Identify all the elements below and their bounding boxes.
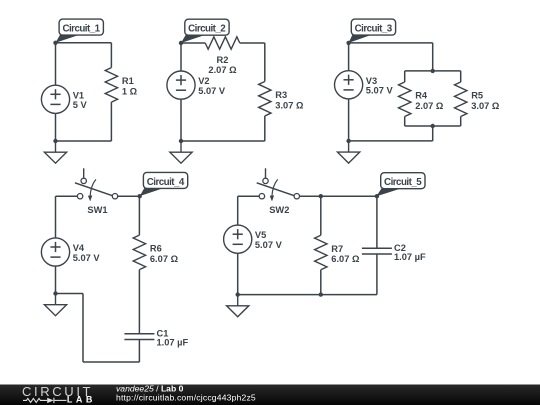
wire R4 branch upper [404, 71, 406, 82]
wire circuit2 top left [181, 42, 205, 44]
wire circuit2 right upper [264, 43, 266, 81]
svg-text:R6: R6 [150, 244, 162, 254]
voltage source V1 5 V [41, 85, 87, 113]
svg-text:6.07 Ω: 6.07 Ω [150, 254, 179, 264]
net flag Circuit_1 [56, 19, 104, 43]
switch SW2 [257, 168, 300, 215]
ground circuit5 [227, 295, 249, 317]
ground circuit1 [44, 141, 66, 163]
wire circuit1 right upper [110, 43, 112, 68]
wire R5 branch upper [460, 71, 462, 82]
wire circuit4 jog horizontal [56, 293, 84, 295]
ground circuit4 [44, 294, 66, 316]
footer bar [0, 385, 540, 405]
wire circuit5 bottom [238, 294, 377, 296]
wire circuit3 top [349, 42, 433, 44]
wire circuit3 left lower [348, 99, 350, 141]
svg-text:R2: R2 [217, 55, 229, 65]
node circuit2 top-left [179, 41, 183, 45]
svg-text:Circuit_2: Circuit_2 [188, 24, 226, 35]
svg-text:V3: V3 [366, 76, 377, 86]
svg-text:Circuit_4: Circuit_4 [147, 177, 185, 188]
ground circuit3 [338, 141, 360, 163]
svg-text:Circuit_3: Circuit_3 [355, 24, 393, 35]
svg-text:V2: V2 [198, 76, 209, 86]
wire circuit1 left lower [55, 113, 57, 141]
wire circuit3 bottom [349, 140, 433, 142]
net flag Circuit_3 [349, 19, 396, 43]
voltage source V2 5.07 V [167, 71, 226, 99]
wire circuit5 R7 lower [320, 270, 322, 295]
voltage source V5 5.07 V [224, 225, 283, 253]
node circuit3 parallel bottom [431, 124, 435, 128]
svg-text:1.07 µF: 1.07 µF [157, 338, 189, 348]
svg-text:V5: V5 [255, 230, 266, 240]
node circuit3 ground junction [346, 139, 350, 143]
wire circuit1 bottom [56, 140, 112, 142]
wire circuit3 parallel top bar [405, 70, 461, 72]
svg-text:Circuit_1: Circuit_1 [62, 24, 100, 35]
node circuit3 parallel top [431, 69, 435, 73]
wire circuit4 left upper [55, 196, 57, 238]
svg-text:5.07 V: 5.07 V [366, 86, 394, 96]
wire circuit5 left upper [237, 196, 239, 225]
svg-text:3.07 Ω: 3.07 Ω [275, 100, 304, 110]
wire R4 branch lower [404, 117, 406, 127]
resistor R4 2.07 ohm [399, 82, 411, 117]
net flag Circuit_2 [181, 19, 229, 43]
svg-text:R7: R7 [331, 244, 343, 254]
wire circuit3 feed down [432, 43, 434, 71]
svg-text:R5: R5 [471, 91, 483, 101]
svg-text:R3: R3 [275, 90, 287, 100]
wire circuit4 top left [56, 195, 78, 197]
wire circuit1 top [56, 42, 112, 44]
node circuit2 ground junction [179, 139, 183, 143]
wire R5 branch lower [460, 117, 462, 127]
wire circuit2 right lower [264, 116, 266, 141]
node circuit4 ground junction [53, 291, 57, 295]
node circuit3 top-left [346, 41, 350, 45]
svg-text:3.07 Ω: 3.07 Ω [471, 101, 500, 111]
wire circuit4 jog vertical [82, 294, 84, 363]
wire circuit5 top left [238, 195, 260, 197]
wire circuit3 parallel bottom bar [405, 125, 461, 127]
node circuit5 top-right [375, 194, 379, 198]
wire circuit4 R6 to C1 [138, 270, 140, 334]
wire circuit2 left lower [180, 99, 182, 141]
svg-text:5.07 V: 5.07 V [73, 253, 101, 263]
svg-text:1.07 µF: 1.07 µF [394, 252, 426, 262]
wire circuit3 return down [432, 126, 434, 141]
wire circuit4 bottom [83, 361, 139, 363]
node circuit1 ground junction [53, 139, 57, 143]
wire circuit4 left lower [55, 266, 57, 293]
capacitor C1 1.07 uF [124, 329, 188, 348]
svg-text:6.07 Ω: 6.07 Ω [331, 254, 360, 264]
node circuit1 top-left [53, 41, 57, 45]
svg-text:LAB: LAB [67, 395, 96, 405]
resistor R2 2.07 ohm [205, 37, 240, 49]
resistor R3 3.07 ohm [259, 81, 271, 116]
wire circuit2 left upper [180, 43, 182, 71]
wire circuit5 C2 upper [376, 196, 378, 248]
net flag Circuit_4 [140, 172, 188, 196]
wire circuit5 R7 upper [320, 196, 322, 235]
wire circuit4 switch to node [118, 195, 140, 197]
svg-text:V1: V1 [73, 90, 84, 100]
wire circuit4 node to R6 [138, 196, 140, 235]
svg-text:Circuit_5: Circuit_5 [384, 177, 422, 188]
resistor R7 6.07 ohm [315, 235, 327, 270]
svg-text:R4: R4 [415, 91, 428, 101]
svg-text:2.07 Ω: 2.07 Ω [415, 101, 444, 111]
wire circuit5 left lower [237, 253, 239, 294]
svg-text:SW1: SW1 [87, 205, 107, 215]
node circuit4 top-right [138, 194, 142, 198]
wire circuit1 right lower [110, 102, 112, 141]
wire circuit2 top right [240, 42, 265, 44]
capacitor C2 1.07 uF [362, 243, 426, 262]
svg-text:SW2: SW2 [269, 205, 289, 215]
resistor R6 6.07 ohm [133, 235, 145, 270]
node circuit5 R7 top junction [319, 194, 323, 198]
logo schematic squiggle: wire, resistor zigzag, diode [23, 398, 67, 403]
svg-text:V4: V4 [73, 243, 85, 253]
svg-text:5.07 V: 5.07 V [255, 240, 283, 250]
wire circuit5 switch to C2 branch [300, 195, 377, 197]
node circuit5 ground junction [236, 292, 240, 296]
wire circuit4 below C1 [138, 340, 140, 363]
svg-text:http://circuitlab.com/cjccg443: http://circuitlab.com/cjccg443ph2z5 [116, 393, 256, 403]
voltage source V4 5.07 V [41, 238, 100, 266]
wire circuit3 left upper [348, 43, 350, 71]
node circuit5 R7 bottom junction [319, 292, 323, 296]
voltage source V3 5.07 V [335, 71, 394, 99]
wire circuit1 left upper [55, 43, 57, 85]
svg-text:R1: R1 [122, 76, 134, 86]
svg-text:5 V: 5 V [73, 100, 88, 110]
net flag Circuit_5 [376, 173, 425, 197]
resistor R1 1 ohm [105, 68, 117, 103]
svg-text:2.07 Ω: 2.07 Ω [208, 65, 237, 75]
switch SW1 [75, 168, 118, 215]
resistor R5 3.07 ohm [455, 82, 467, 117]
svg-text:1 Ω: 1 Ω [122, 86, 138, 96]
ground circuit2 [170, 141, 192, 163]
wire circuit2 bottom [181, 140, 265, 142]
wire circuit5 C2 lower [376, 254, 378, 295]
svg-text:5.07 V: 5.07 V [198, 86, 226, 96]
